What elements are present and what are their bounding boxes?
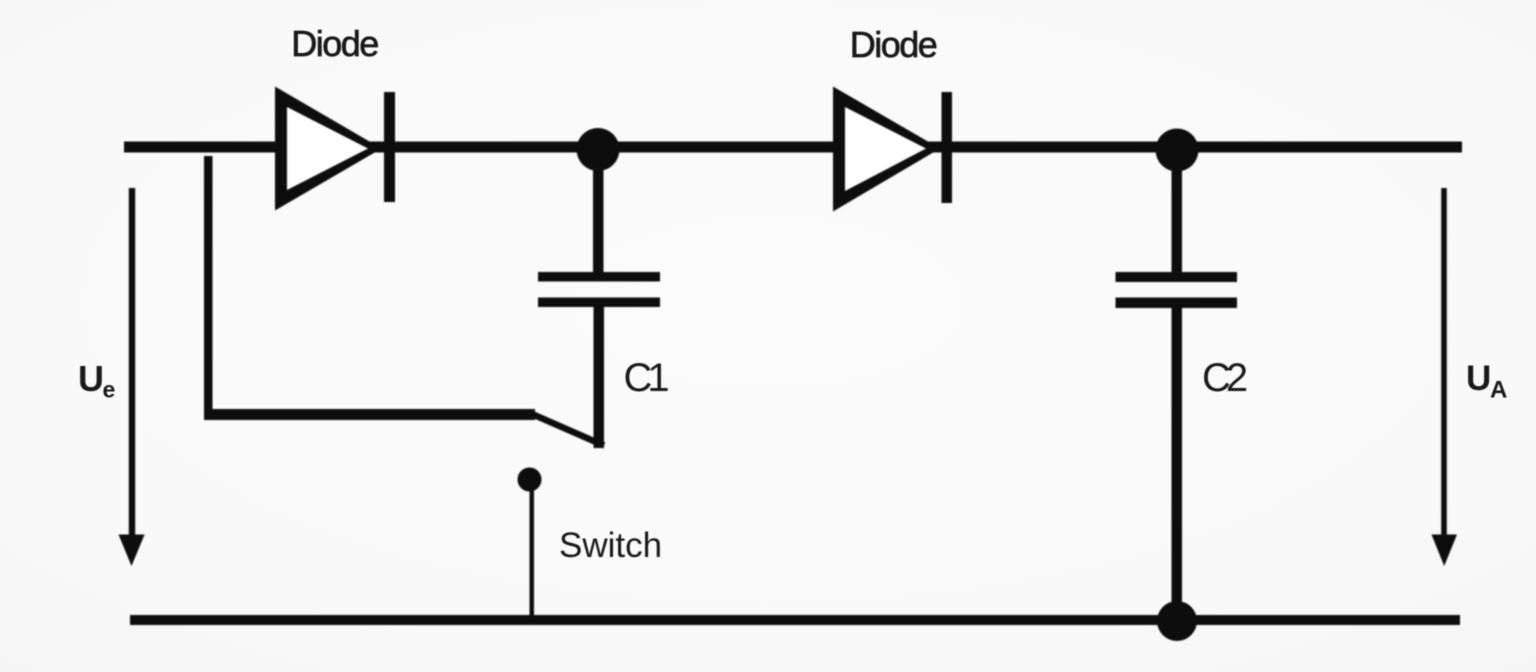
svg-text:A: A — [1490, 377, 1507, 404]
svg-text:U: U — [1466, 359, 1491, 398]
svg-text:C2: C2 — [1202, 356, 1247, 400]
svg-text:Switch: Switch — [559, 526, 662, 565]
svg-text:U: U — [78, 358, 104, 399]
svg-text:e: e — [103, 377, 116, 403]
svg-text:C1: C1 — [624, 356, 669, 400]
svg-text:Diode: Diode — [291, 23, 378, 64]
svg-text:Diode: Diode — [850, 24, 937, 65]
